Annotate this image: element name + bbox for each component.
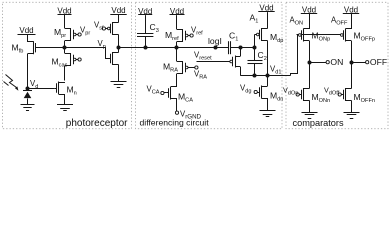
svg-text:OFF: OFF [370,57,387,67]
svg-text:comparators: comparators [293,118,344,128]
svg-text:photoreceptor: photoreceptor [66,118,128,129]
svg-text:differencing circuit: differencing circuit [140,118,210,128]
svg-text:Vdd: Vdd [19,26,33,35]
svg-text:logI: logI [208,36,222,46]
svg-text:ON: ON [330,57,343,67]
svg-text:Vdd: Vdd [111,6,125,15]
